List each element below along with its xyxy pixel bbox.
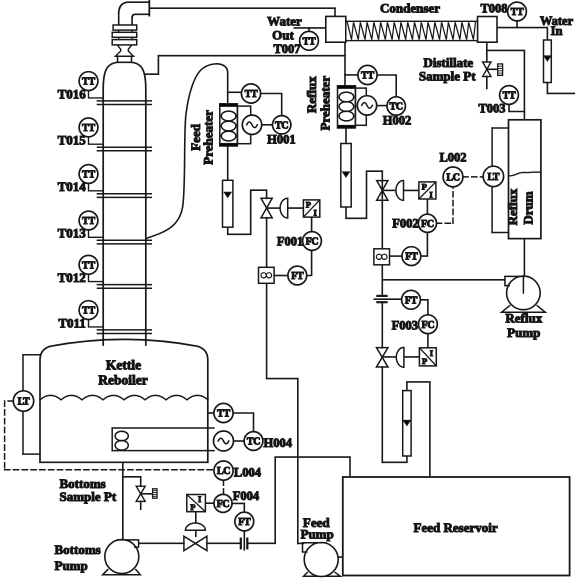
svg-text:T013: T013 bbox=[58, 226, 87, 241]
svg-text:FT: FT bbox=[291, 271, 304, 282]
svg-text:FT: FT bbox=[405, 295, 418, 306]
svg-text:T003: T003 bbox=[478, 101, 505, 115]
svg-text:TT: TT bbox=[217, 409, 230, 420]
svg-text:Reflux: Reflux bbox=[505, 188, 520, 225]
svg-text:Water: Water bbox=[267, 14, 302, 29]
svg-text:Reflux: Reflux bbox=[505, 311, 542, 326]
svg-text:TC: TC bbox=[247, 437, 260, 448]
svg-text:P: P bbox=[190, 502, 195, 512]
svg-text:FC: FC bbox=[217, 499, 230, 510]
svg-text:T007: T007 bbox=[273, 42, 300, 56]
svg-text:Condenser: Condenser bbox=[380, 0, 440, 15]
svg-text:L002: L002 bbox=[439, 150, 466, 164]
svg-text:FC: FC bbox=[422, 320, 435, 331]
svg-text:Feed Reservoir: Feed Reservoir bbox=[414, 520, 498, 535]
svg-text:Sample Pt: Sample Pt bbox=[60, 489, 117, 504]
svg-text:Bottoms: Bottoms bbox=[55, 542, 101, 557]
svg-text:Preheater: Preheater bbox=[318, 76, 333, 131]
svg-text:TT: TT bbox=[245, 89, 258, 100]
svg-text:LC: LC bbox=[217, 466, 230, 477]
svg-text:Pump: Pump bbox=[301, 527, 334, 542]
svg-text:In: In bbox=[551, 24, 563, 38]
svg-text:Pump: Pump bbox=[55, 558, 88, 573]
svg-text:F001: F001 bbox=[277, 234, 303, 248]
svg-text:H004: H004 bbox=[264, 436, 293, 450]
svg-text:TT: TT bbox=[361, 71, 374, 82]
svg-text:FC: FC bbox=[306, 237, 319, 248]
svg-text:Drum: Drum bbox=[520, 191, 535, 224]
svg-text:F004: F004 bbox=[233, 489, 260, 503]
svg-text:FT: FT bbox=[238, 517, 251, 528]
svg-text:TT: TT bbox=[303, 36, 316, 47]
svg-text:L004: L004 bbox=[234, 465, 262, 479]
svg-text:Kettle: Kettle bbox=[106, 357, 141, 372]
svg-text:Pump: Pump bbox=[507, 325, 540, 340]
svg-text:T014: T014 bbox=[58, 179, 87, 194]
svg-text:P: P bbox=[306, 200, 311, 210]
svg-text:T015: T015 bbox=[58, 133, 87, 148]
svg-text:Reboiler: Reboiler bbox=[98, 372, 148, 387]
svg-text:TC: TC bbox=[390, 102, 403, 113]
svg-text:TC: TC bbox=[275, 120, 288, 131]
svg-text:TT: TT bbox=[511, 7, 524, 18]
svg-text:T012: T012 bbox=[58, 270, 86, 285]
svg-text:H001: H001 bbox=[267, 133, 295, 147]
svg-text:T008: T008 bbox=[480, 1, 507, 15]
svg-text:H002: H002 bbox=[383, 114, 411, 128]
svg-text:T011: T011 bbox=[58, 315, 85, 330]
svg-text:Out: Out bbox=[272, 27, 294, 42]
svg-text:Sample Pt: Sample Pt bbox=[419, 68, 476, 83]
svg-text:LT: LT bbox=[487, 172, 499, 183]
svg-text:LC: LC bbox=[446, 173, 459, 184]
svg-text:LT: LT bbox=[18, 397, 30, 408]
svg-text:FC: FC bbox=[421, 219, 434, 230]
svg-text:Preheater: Preheater bbox=[201, 110, 216, 165]
svg-text:TT: TT bbox=[503, 91, 516, 102]
svg-text:F003: F003 bbox=[392, 318, 418, 332]
svg-text:P: P bbox=[422, 356, 427, 366]
svg-text:T016: T016 bbox=[58, 86, 87, 101]
svg-text:FT: FT bbox=[405, 252, 418, 263]
svg-text:F002: F002 bbox=[392, 217, 418, 231]
svg-text:P: P bbox=[422, 181, 427, 191]
